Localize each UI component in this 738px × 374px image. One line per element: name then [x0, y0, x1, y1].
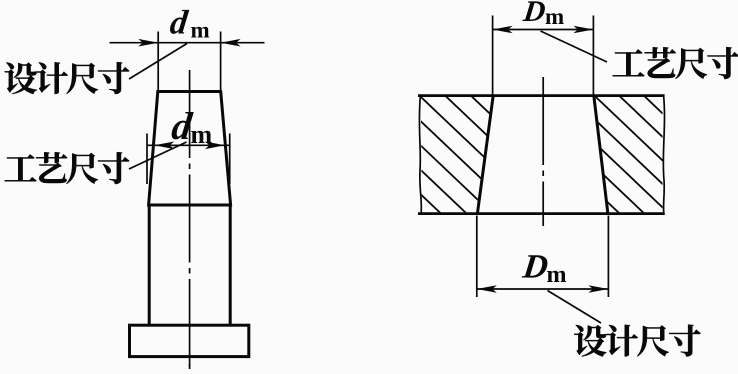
svg-text:m: m: [191, 18, 210, 43]
svg-text:d: d: [168, 4, 190, 41]
svg-text:m: m: [191, 120, 213, 149]
svg-text:m: m: [547, 262, 567, 288]
svg-text:m: m: [545, 4, 564, 29]
svg-text:D: D: [521, 0, 548, 28]
